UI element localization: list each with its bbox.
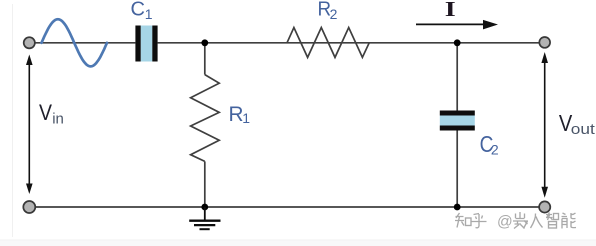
svg-text:V: V bbox=[39, 100, 52, 125]
svg-text:2: 2 bbox=[491, 141, 499, 157]
svg-text:out: out bbox=[571, 121, 596, 138]
svg-text:2: 2 bbox=[330, 6, 338, 22]
svg-text:in: in bbox=[52, 111, 64, 128]
svg-text:@: @ bbox=[497, 214, 513, 231]
svg-text:I: I bbox=[445, 0, 456, 21]
svg-text:C: C bbox=[131, 0, 145, 21]
svg-text:1: 1 bbox=[242, 110, 250, 126]
svg-text:1: 1 bbox=[145, 6, 153, 22]
